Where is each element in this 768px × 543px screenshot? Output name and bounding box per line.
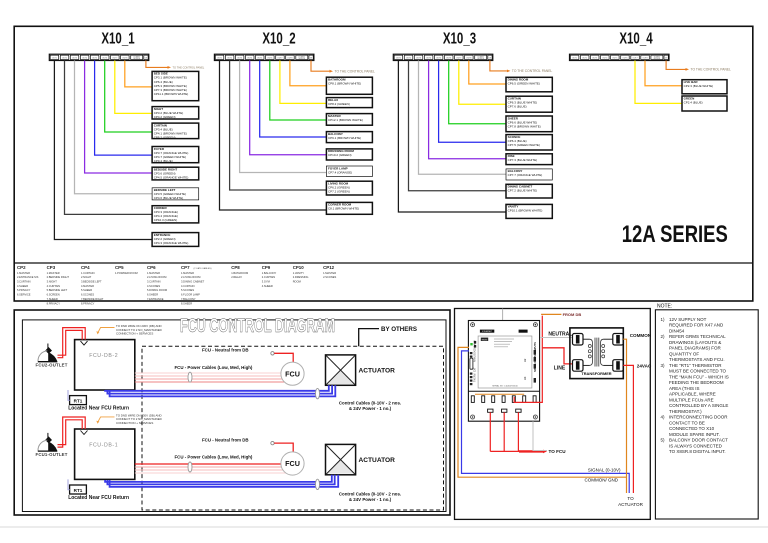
svg-text:NEUTRAL: NEUTRAL (548, 331, 572, 337)
svg-text:Control Cables (0-10V - 2 nos.: Control Cables (0-10V - 2 nos. (339, 491, 401, 496)
svg-text:QUANTITY OF: QUANTITY OF (669, 351, 699, 356)
svg-text:OUT8: OUT8 (466, 58, 471, 60)
svg-text:FCU: FCU (285, 369, 300, 378)
svg-text:MODULE: MODULE (477, 58, 483, 60)
svg-text:CP10.1 (BROWN WHITE): CP10.1 (BROWN WHITE) (508, 209, 543, 213)
svg-text:5.SCONES: 5.SCONES (181, 288, 194, 292)
svg-text:OUT8: OUT8 (122, 58, 127, 60)
svg-text:CONTROLLED BY A SINGLE: CONTROLLED BY A SINGLE (669, 403, 728, 408)
svg-text:4.SCONES: 4.SCONES (147, 284, 160, 288)
svg-text:FCU2-OUTLET: FCU2-OUTLET (36, 363, 68, 368)
svg-text:THE “MAIN FCU” - WHICH IS: THE “MAIN FCU” - WHICH IS (669, 374, 729, 379)
svg-text:CP4.2 (GREEN): CP4.2 (GREEN) (154, 115, 176, 119)
svg-text:OUT1: OUT1 (396, 58, 401, 60)
svg-text:CP2: CP2 (17, 265, 26, 270)
svg-text:OUT6: OUT6 (267, 58, 272, 60)
svg-text:1): 1) (661, 317, 666, 322)
svg-text:CP4.3 (ORANGE WHITE): CP4.3 (ORANGE WHITE) (154, 241, 189, 245)
svg-text:5): 5) (661, 438, 666, 443)
svg-text:1.MASTER: 1.MASTER (323, 271, 336, 275)
svg-text:OUT5: OUT5 (436, 58, 441, 60)
svg-text:GN: GN (665, 58, 667, 60)
svg-text:CONNECTION + SERVICES: CONNECTION + SERVICES (116, 421, 153, 425)
svg-text:4.SHEER: 4.SHEER (17, 284, 28, 288)
svg-text:FCU1-OUTLET: FCU1-OUTLET (36, 452, 68, 457)
svg-text:2): 2) (661, 334, 666, 339)
svg-text:BALCONY DOOR CONTACT: BALCONY DOOR CONTACT (669, 438, 728, 443)
svg-text:& 24V Power - 1 no.): & 24V Power - 1 no.) (349, 497, 392, 502)
svg-text:OUT4: OUT4 (82, 58, 87, 60)
svg-text:ACTUATOR: ACTUATOR (359, 457, 396, 464)
svg-text:8.PRIVACY: 8.PRIVACY (81, 301, 95, 305)
svg-text:OUT4: OUT4 (247, 58, 252, 60)
svg-text:6.SHEER: 6.SHEER (147, 293, 158, 297)
svg-text:RS485: RS485 (482, 339, 488, 341)
svg-text:LINE: LINE (554, 366, 566, 372)
svg-text:5.PRIVACY: 5.PRIVACY (17, 288, 31, 292)
svg-text:CONNECTION + SERVICES: CONNECTION + SERVICES (116, 332, 153, 336)
svg-text:CP12: CP12 (323, 265, 335, 270)
svg-text:5.SHEER: 5.SHEER (81, 288, 92, 292)
svg-text:MODULE: MODULE (133, 58, 139, 60)
svg-text:8.SHEER: 8.SHEER (181, 301, 192, 305)
svg-text:ACTUATOR: ACTUATOR (618, 502, 644, 507)
svg-text:TO X8SR.8 DIGITAL INPUT.: TO X8SR.8 DIGITAL INPUT. (669, 449, 726, 454)
svg-text:3.CURTAIN: 3.CURTAIN (17, 280, 31, 284)
svg-text:& 24V Power - 1 no.): & 24V Power - 1 no.) (349, 406, 392, 411)
svg-text:X10_2: X10_2 (262, 30, 295, 47)
svg-text:Located Near FCU Return: Located Near FCU Return (68, 405, 129, 411)
svg-text:TO NEXT: TO NEXT (477, 56, 484, 58)
svg-text:IS ALWAYS CONNECTED: IS ALWAYS CONNECTED (669, 443, 723, 448)
svg-text:4.SHEER: 4.SHEER (262, 284, 273, 288)
svg-text:OUT7: OUT7 (277, 58, 282, 60)
svg-text:APPLICABLE, WHERE: APPLICABLE, WHERE (669, 392, 716, 397)
svg-text:TRANSFORMER: TRANSFORMER (581, 371, 611, 376)
svg-text:OUT2: OUT2 (62, 58, 67, 60)
svg-text:NOTE:: NOTE: (657, 304, 672, 310)
svg-text:OUT6: OUT6 (102, 58, 107, 60)
svg-text:CP11.1 (BROWN WHITE): CP11.1 (BROWN WHITE) (154, 92, 189, 96)
svg-text:MUST BE CONNECTED TO: MUST BE CONNECTED TO (669, 369, 727, 374)
svg-text:CP7.2 (BLUE WHITE): CP7.2 (BLUE WHITE) (508, 189, 538, 193)
svg-text:FCU - Neutral from DB: FCU - Neutral from DB (202, 348, 249, 353)
svg-text:TO THE CONTROL PANEL: TO THE CONTROL PANEL (335, 69, 376, 73)
svg-text:4.CURTAIN: 4.CURTAIN (47, 284, 61, 288)
svg-text:CP7.4 (ORANGE): CP7.4 (ORANGE) (328, 170, 352, 174)
svg-text:CP8: CP8 (231, 265, 240, 270)
svg-text:FEEDING THE BEDROOM: FEEDING THE BEDROOM (669, 380, 724, 385)
svg-text:4): 4) (661, 415, 666, 420)
svg-text:CP4.5 (ORANGE WHITE): CP4.5 (ORANGE WHITE) (154, 176, 189, 180)
svg-text:FCU-DB-1: FCU-DB-1 (89, 443, 118, 449)
svg-text:OUT1: OUT1 (572, 58, 577, 60)
svg-text:CP8.1 (BROWN WHITE): CP8.1 (BROWN WHITE) (328, 82, 361, 86)
svg-text:2.CURTAIN: 2.CURTAIN (262, 275, 276, 279)
svg-text:2.RELAX: 2.RELAX (231, 275, 242, 279)
svg-text:1.BALCONY: 1.BALCONY (262, 271, 277, 275)
svg-text:2.BEDSIDE RIGHT: 2.BEDSIDE RIGHT (47, 275, 70, 279)
svg-text:Located Near FCU Return: Located Near FCU Return (68, 495, 129, 501)
svg-text:TO: TO (627, 496, 634, 501)
svg-text:OUT2: OUT2 (227, 58, 232, 60)
svg-text:OUT3: OUT3 (237, 58, 242, 60)
svg-text:CP7.5 (GREEN WHITE): CP7.5 (GREEN WHITE) (508, 143, 540, 147)
svg-text:OUT7: OUT7 (456, 58, 461, 60)
svg-text:7.SHEER: 7.SHEER (47, 297, 58, 301)
svg-text:MODULE: MODULE (654, 58, 660, 60)
svg-text:OUT3: OUT3 (72, 58, 77, 60)
svg-text:2.SCONES: 2.SCONES (323, 275, 336, 279)
svg-text:OUT6: OUT6 (446, 58, 451, 60)
svg-text:CP4: CP4 (81, 265, 90, 270)
svg-text:5.BEDSIDE LEFT: 5.BEDSIDE LEFT (47, 288, 68, 292)
svg-text:THE “RT1” THERMISTOR: THE “RT1” THERMISTOR (669, 363, 722, 368)
svg-text:3.DINING CABINET: 3.DINING CABINET (181, 280, 205, 284)
svg-text:CP2.3 (BLUE WHITE): CP2.3 (BLUE WHITE) (684, 84, 714, 88)
svg-text:3.GYM: 3.GYM (262, 280, 270, 284)
svg-text:6.SCREEN: 6.SCREEN (47, 293, 60, 297)
svg-text:CP7.7 (ORANGE WHITE): CP7.7 (ORANGE WHITE) (508, 173, 543, 177)
svg-text:TO THE CONTROL PANEL: TO THE CONTROL PANEL (691, 68, 732, 72)
svg-text:FROM DB: FROM DB (563, 312, 582, 317)
svg-text:OUT1: OUT1 (52, 58, 57, 60)
svg-text:1.BATHROOM: 1.BATHROOM (231, 271, 248, 275)
svg-text:7.ENTRANCE: 7.ENTRANCE (147, 297, 164, 301)
svg-text:4.MASTER: 4.MASTER (81, 284, 94, 288)
svg-text:MODULE: MODULE (299, 58, 305, 60)
svg-text:OUT3: OUT3 (416, 58, 421, 60)
svg-text:3.CURTAIN: 3.CURTAIN (147, 280, 161, 284)
svg-text:PANEL DIAGRAMS) FOR: PANEL DIAGRAMS) FOR (669, 346, 722, 351)
svg-text:THERMOSTATS AND FCU.: THERMOSTATS AND FCU. (669, 357, 725, 362)
svg-text:FCU - Power Cables (Low, Med,: FCU - Power Cables (Low, Med, High) (175, 365, 253, 370)
svg-text:CONNECTED TO X10: CONNECTED TO X10 (669, 426, 715, 431)
svg-text:COMMON: COMMON (630, 333, 652, 338)
svg-text:2.NIGHT: 2.NIGHT (81, 275, 92, 279)
svg-text:7.BEDSIDE RIGHT: 7.BEDSIDE RIGHT (81, 297, 104, 301)
svg-text:TO THE CONTROL PANEL: TO THE CONTROL PANEL (173, 66, 205, 70)
svg-text:1.MASTER: 1.MASTER (17, 271, 30, 275)
svg-text:SERIAL NO: C10400756610: SERIAL NO: C10400756610 (492, 385, 518, 388)
svg-text:RT1: RT1 (74, 488, 83, 493)
svg-text:CP2.4 (BLUE): CP2.4 (BLUE) (684, 100, 703, 104)
svg-text:OUT7: OUT7 (112, 58, 117, 60)
svg-text:RT1: RT1 (74, 398, 83, 403)
svg-text:7.BALCONY: 7.BALCONY (181, 297, 196, 301)
svg-text:2.LIVING ROOM: 2.LIVING ROOM (147, 275, 166, 279)
svg-text:CONTACT TO BE: CONTACT TO BE (669, 420, 705, 425)
svg-text:OUT5: OUT5 (257, 58, 262, 60)
svg-text:EXT: EXT (473, 367, 476, 372)
svg-text:CP10.2 (GREEN): CP10.2 (GREEN) (328, 153, 352, 157)
svg-text:MULTIPLE FCUs ARE: MULTIPLE FCUs ARE (669, 397, 714, 402)
svg-text:12A SERIES: 12A SERIES (622, 221, 728, 248)
svg-text:OUT6: OUT6 (622, 58, 627, 60)
svg-text:CP10.3 (GREEN): CP10.3 (GREEN) (154, 218, 178, 222)
svg-text:OUT4: OUT4 (426, 58, 431, 60)
svg-text:CP12.1 (BROWN WHITE): CP12.1 (BROWN WHITE) (328, 118, 363, 122)
svg-text:X10_4: X10_4 (619, 30, 652, 47)
svg-text:CP5: CP5 (115, 265, 124, 270)
svg-text:CP6: CP6 (147, 265, 156, 270)
svg-text:CP8.2 (GREEN): CP8.2 (GREEN) (328, 102, 350, 106)
svg-text:2.LIVING ROOM: 2.LIVING ROOM (181, 275, 200, 279)
svg-text:INTERCONNECTING DOOR: INTERCONNECTING DOOR (669, 415, 728, 420)
svg-text:REFER GRMS TECHNICAL: REFER GRMS TECHNICAL (669, 334, 726, 339)
svg-text:ANALOG: ANALOG (473, 352, 476, 362)
svg-text:THERMOSTAT.): THERMOSTAT.) (669, 409, 702, 414)
svg-text:Control Cables (0-10V - 2 nos.: Control Cables (0-10V - 2 nos. (339, 400, 401, 405)
svg-text:1.VANITY: 1.VANITY (293, 271, 305, 275)
svg-text:FCU - Power Cables (Low, Med,: FCU - Power Cables (Low, Med, High) (175, 455, 253, 460)
svg-text:OUT7: OUT7 (632, 58, 637, 60)
svg-text:H2: H2 (523, 358, 527, 362)
svg-text:COMMON/ GND: COMMON/ GND (585, 478, 619, 483)
svg-text:FCU-DB-2: FCU-DB-2 (89, 353, 118, 359)
svg-text:GN: GN (310, 58, 312, 60)
svg-text:OUT3: OUT3 (592, 58, 597, 60)
svg-text:GN: GN (489, 58, 491, 60)
svg-text:REQUIRED FOR X47 AND: REQUIRED FOR X47 AND (669, 323, 724, 328)
svg-text:H3: H3 (523, 376, 527, 380)
svg-text:3.NIGHT: 3.NIGHT (47, 280, 58, 284)
svg-text:X10_1: X10_1 (101, 30, 134, 47)
svg-text:1.MASTER: 1.MASTER (47, 271, 60, 275)
svg-text:2.DRESSING: 2.DRESSING (293, 275, 309, 279)
svg-text:3.BEDSIDE LEFT: 3.BEDSIDE LEFT (81, 280, 102, 284)
svg-text:FCU CONTROL DIAGRAM: FCU CONTROL DIAGRAM (180, 315, 335, 337)
svg-text:FCU - Neutral from DB: FCU - Neutral from DB (202, 438, 249, 443)
svg-text:CP7.6 (BLUE): CP7.6 (BLUE) (508, 105, 527, 109)
svg-text:CP9: CP9 (262, 265, 271, 270)
svg-text:THERM: THERM (473, 373, 476, 382)
svg-text:X10_3: X10_3 (443, 30, 476, 47)
svg-text:2.ENTRANCE S/S: 2.ENTRANCE S/S (17, 275, 39, 279)
svg-text:6.SCONES: 6.SCONES (81, 293, 94, 297)
svg-text:FCU: FCU (285, 459, 300, 468)
svg-text:OUT8: OUT8 (642, 58, 647, 60)
svg-text:OUT8: OUT8 (287, 58, 292, 60)
svg-text:1.POWDER ROOM: 1.POWDER ROOM (115, 271, 138, 275)
svg-text:MODULE SPARE INPUT.: MODULE SPARE INPUT. (669, 432, 720, 437)
svg-text:TO NEXT: TO NEXT (654, 56, 661, 58)
svg-text:CP10: CP10 (293, 265, 305, 270)
svg-text:OUT5: OUT5 (612, 58, 617, 60)
svg-text:6.FLOOR LAMP: 6.FLOOR LAMP (181, 293, 200, 297)
svg-text:1.MASTER: 1.MASTER (181, 271, 194, 275)
svg-text:ACTUATOR: ACTUATOR (359, 367, 396, 374)
svg-text:CP7.8 (BROWN WHITE): CP7.8 (BROWN WHITE) (508, 124, 541, 128)
svg-text:TO NEXT: TO NEXT (133, 56, 140, 58)
svg-text:OUT2: OUT2 (582, 58, 587, 60)
svg-text:OUT4: OUT4 (602, 58, 607, 60)
svg-text:(2 CAT6 CABLES): (2 CAT6 CABLES) (194, 267, 212, 270)
svg-text:CP5.2 (GREEN): CP5.2 (GREEN) (154, 136, 176, 140)
svg-text:CP7.2 (GREEN): CP7.2 (GREEN) (328, 190, 350, 194)
svg-text:ETHERNET: ETHERNET (482, 331, 493, 333)
svg-text:CP9.4 (BLUE): CP9.4 (BLUE) (154, 159, 173, 163)
svg-text:3): 3) (661, 363, 666, 368)
svg-text:1.MASTER: 1.MASTER (147, 271, 160, 275)
svg-text:6.SERVICE: 6.SERVICE (17, 293, 31, 297)
svg-text:5.DINING ROOM: 5.DINING ROOM (147, 288, 167, 292)
svg-text:12V SUPPLY NOT: 12V SUPPLY NOT (669, 317, 707, 322)
svg-text:CP4.6 (BLUE WHITE): CP4.6 (BLUE WHITE) (154, 196, 184, 200)
svg-text:OUT5: OUT5 (92, 58, 97, 60)
svg-text:1.CURTAIN: 1.CURTAIN (81, 271, 95, 275)
svg-text:OUT1: OUT1 (217, 58, 222, 60)
svg-text:CP9.1 (BROWN WHITE): CP9.1 (BROWN WHITE) (328, 136, 361, 140)
svg-text:24VAC: 24VAC (637, 364, 652, 369)
svg-text:TO THE CONTROL PANEL: TO THE CONTROL PANEL (512, 69, 553, 73)
svg-text:GN: GN (145, 58, 147, 60)
svg-text:ROOM: ROOM (293, 280, 301, 284)
svg-text:DRAWINGS (LAYOUTS &: DRAWINGS (LAYOUTS & (669, 340, 721, 345)
svg-text:CP6.5 (GREEN WHITE): CP6.5 (GREEN WHITE) (508, 82, 540, 86)
svg-text:CP3: CP3 (47, 265, 56, 270)
svg-text:C8.1 (BROWN WHITE): C8.1 (BROWN WHITE) (328, 207, 359, 211)
svg-text:8.PRIVACY: 8.PRIVACY (47, 301, 61, 305)
svg-text:CP7.3 (BLUE WHITE): CP7.3 (BLUE WHITE) (508, 158, 538, 162)
svg-text:BY OTHERS: BY OTHERS (381, 326, 417, 333)
svg-text:4.CURTAIN: 4.CURTAIN (181, 284, 195, 288)
svg-text:TO FCU: TO FCU (549, 449, 567, 454)
svg-text:CP7: CP7 (181, 265, 190, 270)
svg-text:TO NEXT: TO NEXT (299, 56, 306, 58)
svg-text:OUT2: OUT2 (406, 58, 411, 60)
svg-text:SIGNAL (0-10V): SIGNAL (0-10V) (588, 467, 621, 472)
svg-text:DIN454: DIN454 (669, 328, 685, 333)
svg-text:AREA (THIS IS: AREA (THIS IS (669, 386, 700, 391)
